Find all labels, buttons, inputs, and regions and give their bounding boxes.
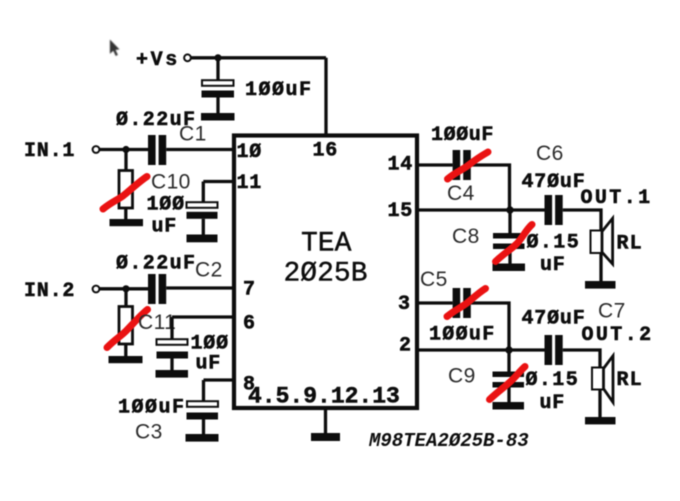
wire pin8 horizontal <box>204 378 233 381</box>
wire pin3 to C5 <box>417 301 453 304</box>
ground IC bottom <box>311 433 340 441</box>
svg-text:14: 14 <box>388 154 414 177</box>
wire C10 top lead <box>124 150 127 171</box>
wire C8 top lead <box>508 210 511 233</box>
wire pin2 to C7 <box>417 348 545 351</box>
junction IN.2 / C11 tap <box>122 285 129 292</box>
op-amp U1 TEA2025B IC body <box>234 136 417 409</box>
wire +Vs horizontal to pin16 drop <box>191 56 326 59</box>
ground C3 <box>186 434 219 442</box>
ground pin11 cap <box>187 235 218 243</box>
ground supply cap <box>201 113 235 121</box>
capacitor C7 plates <box>545 335 563 365</box>
svg-text:IN.1: IN.1 <box>24 140 75 163</box>
junction IN.1 / C10 tap <box>122 146 129 153</box>
strike red C9 <box>490 367 526 400</box>
svg-text:Ø.15: Ø.15 <box>527 232 581 255</box>
junction supply cap tap <box>214 54 221 61</box>
speaker RL1 body <box>591 218 613 281</box>
svg-text:6: 6 <box>243 313 256 336</box>
capacitor C3 plates <box>187 401 219 419</box>
wire pin15 to C6 <box>417 208 545 211</box>
wire C3 bottom lead <box>202 420 205 435</box>
svg-text:OUT.2: OUT.2 <box>582 324 654 347</box>
svg-text:Ø.22uF: Ø.22uF <box>116 253 196 276</box>
ground C10 <box>110 219 144 226</box>
capacitor C2 plates <box>148 274 166 304</box>
terminal +Vs <box>184 54 191 61</box>
ground C11 <box>109 356 143 363</box>
capacitor C8 plates <box>493 233 525 249</box>
wire supply cap bottom lead <box>216 98 219 114</box>
svg-text:2Ø25B: 2Ø25B <box>284 259 368 290</box>
svg-text:OUT.1: OUT.1 <box>581 187 653 210</box>
wire IN.2 to C2 <box>100 287 148 290</box>
strike red C11 <box>107 310 148 348</box>
wire pin11 cap bottom lead <box>202 219 205 235</box>
wire C4 to feedback corner <box>471 165 510 210</box>
svg-text:C2: C2 <box>195 258 223 281</box>
svg-text:C5: C5 <box>420 268 448 291</box>
junction pin2/C9 <box>505 346 512 353</box>
svg-text:+Vs: +Vs <box>136 49 180 72</box>
svg-text:IN.2: IN.2 <box>24 280 75 303</box>
svg-text:1Ø: 1Ø <box>237 141 263 164</box>
svg-text:1ØØuF: 1ØØuF <box>431 124 494 147</box>
wire C6 to OUT.1 corner <box>563 210 601 231</box>
svg-text:TEA: TEA <box>301 228 352 259</box>
wire C7 to OUT.2 corner <box>563 350 600 368</box>
strike red C5 <box>447 289 486 317</box>
ground RL2 <box>585 417 616 424</box>
wire pin6 horizontal <box>172 315 233 318</box>
terminal IN.2 <box>93 286 100 293</box>
wire C8 bottom lead <box>508 249 511 264</box>
svg-text:C6: C6 <box>536 142 564 165</box>
capacitor C6 plates <box>545 195 563 225</box>
svg-text:C10: C10 <box>151 170 191 193</box>
capacitor C1 plates <box>148 135 166 165</box>
svg-text:3: 3 <box>398 293 411 316</box>
svg-text:C9: C9 <box>448 364 476 387</box>
svg-text:C1: C1 <box>179 122 207 145</box>
capacitor C5 plates <box>453 288 471 318</box>
ground C9 <box>493 402 525 410</box>
strike red C8 <box>496 225 533 262</box>
wire C11 bottom lead <box>124 344 127 356</box>
wire C2 to pin7 <box>166 286 232 289</box>
wire pin11 cap top lead <box>202 182 205 203</box>
capacitor C10 body <box>119 171 133 209</box>
wire pin6 cap bottom lead <box>170 359 173 371</box>
ground C8 <box>493 264 526 272</box>
svg-text:16: 16 <box>313 140 339 163</box>
svg-text:RL: RL <box>617 369 643 392</box>
wire pin16 vertical <box>324 58 327 136</box>
svg-text:uF: uF <box>196 353 222 376</box>
svg-text:C8: C8 <box>452 225 480 248</box>
svg-text:Ø.15: Ø.15 <box>526 369 580 392</box>
wire C11 top lead <box>124 289 127 306</box>
svg-text:15: 15 <box>388 200 414 223</box>
strike red C4 <box>448 152 489 179</box>
junction pin15/C8 <box>506 206 513 213</box>
svg-text:4.5.9.12.13: 4.5.9.12.13 <box>248 384 400 410</box>
wire pin6 cap top lead <box>170 317 173 339</box>
svg-text:47ØuF: 47ØuF <box>522 308 586 331</box>
svg-text:RL: RL <box>617 233 643 256</box>
wire pin11 horizontal <box>203 180 232 183</box>
svg-text:uF: uF <box>540 392 566 415</box>
svg-text:1ØØuF: 1ØØuF <box>429 324 496 347</box>
wire IN.1 to C1 <box>100 148 148 151</box>
svg-text:C7: C7 <box>598 299 626 322</box>
svg-text:7: 7 <box>243 279 256 302</box>
svg-text:uF: uF <box>152 216 178 239</box>
wire C10 bottom lead <box>124 208 127 219</box>
wire pin14 to C4 <box>417 163 453 166</box>
svg-text:47ØuF: 47ØuF <box>522 171 586 194</box>
strike red C10 <box>103 177 147 210</box>
capacitor C4 plates <box>453 150 471 180</box>
wire IC bottom pin <box>324 408 327 433</box>
capacitor C9 plates <box>493 372 525 388</box>
svg-text:C4: C4 <box>447 182 475 205</box>
wire C1 to pin10 <box>166 148 232 151</box>
wire C3 top lead <box>202 380 205 401</box>
svg-text:1ØØuF: 1ØØuF <box>118 397 186 420</box>
svg-text:C3: C3 <box>135 420 163 443</box>
svg-text:uF: uF <box>540 254 566 277</box>
wire C5 to feedback corner <box>471 303 509 350</box>
wire C9 top lead <box>507 350 510 372</box>
capacitor supply 100uF plates <box>202 80 235 97</box>
capacitor C11 body <box>119 307 133 345</box>
terminal IN.1 <box>93 146 100 153</box>
capacitor pin6 100uF plates <box>157 339 189 358</box>
svg-text:1ØØ: 1ØØ <box>147 194 185 217</box>
svg-text:M98TEA2Ø25B-83: M98TEA2Ø25B-83 <box>368 430 529 452</box>
capacitor pin11 100uF plates <box>187 202 218 219</box>
mouse cursor <box>110 40 120 57</box>
wire supply cap top lead <box>216 58 219 80</box>
svg-text:11: 11 <box>237 172 263 195</box>
svg-text:2: 2 <box>399 335 412 358</box>
speaker RL2 body <box>592 356 613 417</box>
svg-text:1ØØuF: 1ØØuF <box>245 79 313 102</box>
ground pin6 cap <box>156 370 189 378</box>
ground RL1 <box>585 281 616 289</box>
wire C9 bottom lead <box>507 388 510 403</box>
